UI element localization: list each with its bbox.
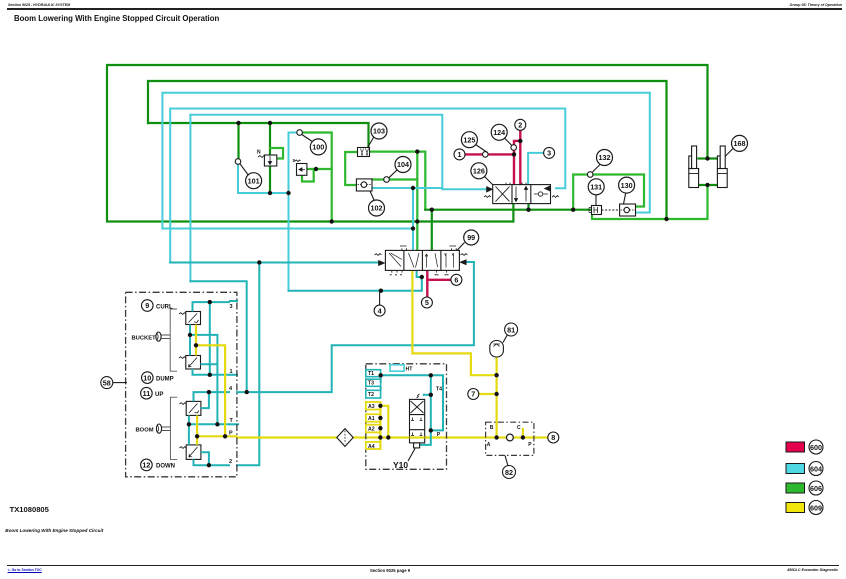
junction (430.8,430.4) xyxy=(429,428,433,432)
junction (380.7,375.3) xyxy=(379,373,383,377)
wire: cyan rect1 top xyxy=(162,93,649,229)
wire: teal valve99 right pilot loop xyxy=(237,262,474,392)
wire: green drop main to valve99 xyxy=(431,210,433,251)
pointer 104 xyxy=(389,169,398,178)
svg-text:P: P xyxy=(229,430,233,436)
pointer 132 xyxy=(593,163,603,173)
callout 132 xyxy=(597,150,613,166)
pointer Y10 xyxy=(408,449,415,462)
junction (288.5,193) xyxy=(286,191,290,195)
junction (238.5,123) xyxy=(236,121,240,125)
Y10 A port cells xyxy=(366,402,381,449)
callout 11 xyxy=(141,387,153,399)
wire: up valve right feed xyxy=(201,392,209,408)
wire: green drop to valve 101 xyxy=(269,123,271,155)
junction (522.9,437.5) xyxy=(521,435,525,439)
svg-text:124: 124 xyxy=(493,128,505,137)
wire: A3 branch to P xyxy=(381,406,389,438)
junction (666.5,219) xyxy=(664,217,668,221)
svg-text:BUCKET: BUCKET xyxy=(132,335,157,341)
junction (380.4,417.9) xyxy=(378,416,382,420)
callout 7 xyxy=(468,389,479,400)
wire: second green line top xyxy=(148,81,667,219)
svg-text:125: 125 xyxy=(463,135,475,144)
callout circles small xyxy=(101,119,823,514)
svg-text:CURL: CURL xyxy=(156,304,173,310)
wire: teal port1 stub xyxy=(230,374,237,376)
tap circle 124 xyxy=(511,145,517,151)
callout 1 xyxy=(454,149,465,160)
wire: comp131 bottom to cylinder line xyxy=(592,185,708,219)
pointer 100 xyxy=(302,135,313,143)
valve U101 pressure reducer xyxy=(258,155,277,166)
callout 100 xyxy=(310,139,326,155)
wire: curl valve T drop xyxy=(189,325,191,356)
wire: curl valve P drop xyxy=(195,325,197,356)
wire: cylinder bottom link xyxy=(699,184,718,186)
wire: main green line y209.7 xyxy=(425,209,591,211)
junction (208.9,392.1) xyxy=(207,390,211,394)
svg-text:81: 81 xyxy=(507,325,515,334)
svg-text:T4: T4 xyxy=(436,386,442,392)
wire: crimson circle2 drop xyxy=(519,130,521,184)
pilot valve DOWN xyxy=(179,445,201,460)
wire: T riser xyxy=(216,364,218,424)
wire: yellow circle7 stub xyxy=(479,393,497,395)
wire: green below valve 101 xyxy=(269,166,271,193)
boom cylinder right xyxy=(717,146,727,188)
callout 102 xyxy=(369,200,385,216)
header: group label xyxy=(790,3,842,7)
callout circles 3-digit xyxy=(246,123,748,245)
check ball inside 82 xyxy=(507,434,514,441)
wire: crimson branch to circle2 drop xyxy=(514,141,520,155)
junction (528.5,209.7) xyxy=(526,208,530,212)
callout 131 xyxy=(588,179,604,195)
junction (413,228.5) xyxy=(411,226,415,230)
wire: yellow accumulator riser xyxy=(496,357,498,438)
svg-text:T: T xyxy=(230,418,234,424)
callout 101 xyxy=(246,173,262,189)
svg-text:T3: T3 xyxy=(368,381,374,387)
svg-text:B: B xyxy=(490,425,494,431)
legend swatch 600 crimson xyxy=(786,442,805,452)
wire: comp103 right to corner down xyxy=(369,152,425,210)
svg-text:5: 5 xyxy=(425,298,429,307)
svg-text:600: 600 xyxy=(810,443,822,452)
footer rule xyxy=(7,565,839,566)
wire: branch x417 down through y222 to valve99 xyxy=(416,152,418,251)
wire: yellow valve99 tank drop xyxy=(412,270,496,375)
svg-text:P: P xyxy=(437,432,441,438)
wire: teal valve99 left pilot line xyxy=(170,262,380,264)
svg-text:131: 131 xyxy=(590,183,602,192)
wire: T1 line to solenoid xyxy=(381,375,443,430)
wire: cyan stub 130 right to up xyxy=(636,94,650,213)
caption italic xyxy=(5,528,103,533)
svg-text:P: P xyxy=(528,442,532,448)
svg-text:130: 130 xyxy=(621,181,633,190)
svg-text:6: 6 xyxy=(454,276,458,285)
junction (520.3,140.9) xyxy=(518,139,522,143)
pilot tap circle at 101 xyxy=(235,159,241,165)
junction (496.6,375.2) xyxy=(494,373,498,377)
wire: port3/1 riser xyxy=(209,302,211,375)
wire: comp103 left loop to comp102 xyxy=(345,152,359,185)
main control valve 99 body xyxy=(375,246,468,275)
joystick boom xyxy=(156,424,170,433)
block58 internal yellow wiring xyxy=(196,325,237,445)
stem callout 5 xyxy=(426,296,428,299)
white circles (ports) xyxy=(235,130,593,183)
wire: P riser bucket xyxy=(196,345,225,436)
wire: dump valve right feed xyxy=(190,335,217,364)
junction (417.3,221.5) xyxy=(415,219,419,223)
svg-text:UP: UP xyxy=(155,392,163,398)
Y10 teal wiring xyxy=(381,375,443,445)
svg-text:T2: T2 xyxy=(368,392,374,398)
wire: solenoid bottom loop xyxy=(419,430,431,445)
svg-text:A3: A3 xyxy=(368,404,375,410)
callout 103 xyxy=(371,123,387,139)
wire: solenoid drain riser xyxy=(430,375,432,430)
svg-text:BOOM: BOOM xyxy=(136,427,154,433)
svg-text:HT: HT xyxy=(406,366,414,372)
junction (496.6,394) xyxy=(494,392,498,396)
legend callout 606 xyxy=(809,481,823,495)
junction (209.8,374.8) xyxy=(208,373,212,377)
svg-text:s: s xyxy=(293,158,296,164)
svg-text:99: 99 xyxy=(467,233,475,242)
svg-text:11: 11 xyxy=(143,389,151,398)
callout 126 xyxy=(471,163,487,179)
pointer 99 xyxy=(457,243,465,251)
Y10 yellow wiring xyxy=(380,406,388,449)
svg-text:3: 3 xyxy=(547,149,551,158)
wire: outer green supply loop (top/left/bottom) xyxy=(107,65,708,222)
svg-text:A1: A1 xyxy=(368,416,375,422)
wire: cyan 101 pilot lower xyxy=(238,164,289,193)
wire: cyan pilot line from comp102 xyxy=(372,187,442,189)
wire: teal port3 stub xyxy=(230,300,237,302)
wire: teal y281 to port4 connector xyxy=(190,281,246,392)
callout 104 xyxy=(395,157,411,173)
wire: green drop to white circle 101 xyxy=(237,123,239,160)
svg-text:C: C xyxy=(517,425,521,431)
wire: cyan circle3 line xyxy=(528,153,544,185)
svg-text:103: 103 xyxy=(373,127,385,136)
accumulator 81 xyxy=(490,341,504,358)
svg-text:2: 2 xyxy=(229,459,232,465)
wire: valve100 right port to x331 xyxy=(307,168,332,170)
Y10 T port cells xyxy=(366,370,381,398)
svg-text:1: 1 xyxy=(230,369,233,375)
TX label xyxy=(10,505,49,514)
wire: cyan rect2 top xyxy=(170,109,565,263)
junction (707.5,158.5) xyxy=(705,156,709,160)
svg-text:DUMP: DUMP xyxy=(156,376,174,382)
svg-text:DOWN: DOWN xyxy=(156,464,175,470)
junction (496.6,437.5) xyxy=(494,435,498,439)
pointer 101 xyxy=(240,164,249,176)
junction (380.4,437.5) xyxy=(378,435,382,439)
svg-text:8: 8 xyxy=(551,433,555,442)
svg-text:3: 3 xyxy=(230,304,233,310)
page title xyxy=(14,14,219,23)
Y10 block box xyxy=(366,364,447,470)
wire: teal y290 valve99 bottom pilot net xyxy=(289,270,422,290)
junction (380.4,405.8) xyxy=(378,404,382,408)
svg-text:N: N xyxy=(257,150,261,156)
svg-text:132: 132 xyxy=(599,153,611,162)
callout 6 xyxy=(451,274,462,285)
wire: green from white circle 100 to x331 xyxy=(302,133,332,222)
pointer 125 xyxy=(474,144,487,153)
callout 4 xyxy=(374,305,385,316)
wire: T3-T2 riser xyxy=(380,386,382,390)
legend swatch 604 cyan xyxy=(786,464,805,474)
junction (573.2,209.7) xyxy=(571,208,575,212)
pilot valve DUMP xyxy=(179,356,201,370)
svg-text:7: 7 xyxy=(471,390,475,399)
junction (196,345.3) xyxy=(194,343,198,347)
junction (413,188) xyxy=(411,186,415,190)
junction (331.7,221.5) xyxy=(330,219,334,223)
tap circle 125 xyxy=(483,152,489,158)
junction (197.1,436.3) xyxy=(195,434,199,438)
component text labels xyxy=(132,150,533,471)
callout 58 xyxy=(101,377,113,389)
svg-text:100: 100 xyxy=(312,143,324,152)
dashed pilot between 131 and 130 xyxy=(602,209,620,211)
footer right xyxy=(787,568,838,572)
junction (380.9,290.7) xyxy=(379,289,383,293)
junction (430.8,375.3) xyxy=(429,373,433,377)
callout 124 xyxy=(491,124,507,140)
svg-text:1: 1 xyxy=(458,150,462,159)
svg-text:Y10: Y10 xyxy=(393,460,408,470)
Y10 solenoid valve xyxy=(410,394,425,448)
pilot valve UP xyxy=(179,401,201,415)
svg-text:A4: A4 xyxy=(368,444,375,450)
svg-text:4: 4 xyxy=(378,306,382,315)
Y10 HT port cell xyxy=(390,365,404,371)
svg-text:2: 2 xyxy=(518,121,522,130)
svg-text:A: A xyxy=(487,442,491,448)
junction (188.9,424.3) xyxy=(187,422,191,426)
wire: teal port2 riser to left pilot xyxy=(237,263,259,466)
wire: crimson circle1 line xyxy=(465,154,514,184)
callout 81 xyxy=(505,323,518,336)
wire: loop at valve 101 xyxy=(270,148,283,159)
wire: comp102 top port to white circle 104 line xyxy=(372,178,417,180)
pointer 81 xyxy=(503,335,508,343)
junction (380.4,428.2) xyxy=(378,426,382,430)
header: section label xyxy=(8,3,70,7)
pointer 168 xyxy=(725,148,734,157)
header rule xyxy=(7,8,842,9)
junction (270,193) xyxy=(268,191,272,195)
wire: T drop to down valve xyxy=(188,424,190,445)
junction (707.5,185) xyxy=(705,183,709,187)
wire: T line xyxy=(189,415,230,424)
valve U100 sequence xyxy=(295,160,307,175)
wire: cyan y228 to valve99 xyxy=(162,229,413,251)
boom cylinder left xyxy=(689,146,699,188)
pilot tap circle at 100 xyxy=(297,130,303,136)
legend swatch 609 yellow xyxy=(786,503,805,513)
junction (246.7,392.1) xyxy=(245,390,249,394)
pointer 102 xyxy=(370,191,375,201)
wire: cyan x413 up segment xyxy=(412,188,414,229)
wire: cyan rect3 top xyxy=(190,115,486,281)
pointer 126 xyxy=(483,175,493,185)
junction (514,154.4) xyxy=(512,152,516,156)
pointer 130 xyxy=(624,192,627,205)
junction (190,334.9) xyxy=(188,333,192,337)
callout 12 xyxy=(141,459,153,471)
svg-text:10: 10 xyxy=(143,373,151,382)
component 103 orifice-filter xyxy=(358,148,370,157)
wire: teal portT stub xyxy=(230,423,238,425)
wire: yellow P line main xyxy=(237,436,548,438)
pointer 58 xyxy=(113,382,127,384)
legend callout 609 xyxy=(809,501,823,515)
legend swatch 606 green xyxy=(786,483,805,493)
junction (259.3,262.5) xyxy=(257,260,261,264)
svg-text:168: 168 xyxy=(734,139,746,148)
wire: P line boom xyxy=(197,415,237,445)
svg-text:101: 101 xyxy=(248,176,260,185)
svg-text:4: 4 xyxy=(229,386,233,392)
block58 internal teal wiring xyxy=(189,302,230,465)
junction (208.9,465.2) xyxy=(207,463,211,467)
callout numbers xyxy=(103,121,822,513)
junction (209.8,302.1) xyxy=(208,300,212,304)
callout pointer lines xyxy=(113,135,734,467)
callout 130 xyxy=(619,177,635,193)
svg-text:604: 604 xyxy=(810,464,822,473)
footer left link xyxy=(8,568,42,572)
wire: crimson circle6 line xyxy=(427,279,451,281)
wire: yellow P through solenoid xyxy=(410,436,425,438)
svg-text:T1: T1 xyxy=(368,371,374,377)
pointer 124 xyxy=(504,137,512,146)
pilot control block 58 box xyxy=(126,292,237,477)
svg-text:A2: A2 xyxy=(368,427,375,433)
junction (388.3,437.5) xyxy=(386,435,390,439)
bracket bucket valves xyxy=(170,309,177,371)
wire: down valve right feed xyxy=(201,452,209,465)
callout 9 xyxy=(142,300,154,312)
wire: A chain riser xyxy=(379,406,381,449)
wire: port2 net xyxy=(194,459,231,465)
wire: crimson valve99 port5 drop xyxy=(426,270,428,296)
pilot-to-close valve 131 xyxy=(589,206,602,215)
callout 2 xyxy=(515,119,526,130)
callout 125 xyxy=(461,132,477,148)
svg-text:609: 609 xyxy=(810,503,822,512)
junction (417.3,151.6) xyxy=(415,149,419,153)
junction (225.1,436.3) xyxy=(223,434,227,438)
callout 10 xyxy=(142,372,154,384)
callout 3 xyxy=(544,147,555,158)
wire: bright green box around 131/130 xyxy=(573,175,644,210)
wire: loop at valve 100 xyxy=(302,169,314,182)
pointer 82 xyxy=(505,455,508,466)
svg-text:58: 58 xyxy=(103,378,111,387)
svg-text:12: 12 xyxy=(142,461,150,470)
filter diamond xyxy=(337,429,353,447)
junction (270,123) xyxy=(268,121,272,125)
footer center xyxy=(370,568,410,573)
wire: solenoid top spring stub xyxy=(423,394,431,396)
callout 8 xyxy=(548,432,559,443)
svg-text:102: 102 xyxy=(371,204,383,213)
svg-text:82: 82 xyxy=(505,468,513,477)
svg-text:606: 606 xyxy=(810,484,822,493)
check valve unit 82 box xyxy=(486,422,534,455)
junction (421.8,277) xyxy=(420,275,424,279)
callout 168 xyxy=(732,135,748,151)
svg-text:9: 9 xyxy=(145,301,149,310)
pointer 103 xyxy=(368,137,374,148)
pointer 131 xyxy=(595,192,597,206)
wire: port4 net xyxy=(194,392,231,401)
wire: cylinder rod-end link xyxy=(699,157,718,159)
legend callout 604 xyxy=(809,462,823,476)
callout 5 xyxy=(421,297,432,308)
wire: yellow port C stub in 82 xyxy=(522,429,524,438)
wire: port1 net xyxy=(193,369,231,375)
junction (217.4,424.3) xyxy=(215,422,219,426)
wire: cyan pilot 100/101 net xyxy=(289,133,298,291)
wire: port3 net xyxy=(193,302,231,311)
component 102 orifice xyxy=(356,179,372,191)
tap circle 132 xyxy=(587,172,593,178)
svg-text:126: 126 xyxy=(473,167,485,176)
legend callout 600 xyxy=(809,440,823,454)
svg-text:104: 104 xyxy=(397,160,409,169)
junction (431.8,209.7) xyxy=(430,208,434,212)
tap circle 104 xyxy=(384,177,390,183)
joystick bucket xyxy=(156,332,170,341)
pilot valve CURL xyxy=(179,312,201,325)
wire: T chain riser xyxy=(380,375,382,383)
control valve 126 body xyxy=(484,183,559,204)
wire: green branch y123 to comp103 xyxy=(148,123,369,148)
junction (430.8,394.8) xyxy=(429,393,433,397)
orifice check 130 xyxy=(620,204,636,216)
bracket boom valves xyxy=(170,397,177,459)
stem callout 4 xyxy=(379,291,381,305)
callout 82 xyxy=(503,466,516,479)
wire: valve126 P port drop xyxy=(527,204,529,210)
junction (316,169) xyxy=(314,167,318,171)
callout 99 xyxy=(464,230,479,245)
